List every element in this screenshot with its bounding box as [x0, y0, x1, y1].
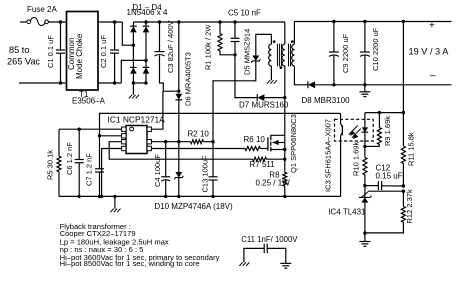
ground: controller section — [113, 195, 116, 198]
svg-text:D6 MRA4005T3: D6 MRA4005T3 — [184, 52, 193, 106]
svg-text:R2 10: R2 10 — [188, 130, 210, 139]
resistor R10 1.69k — [364, 146, 366, 157]
wire: pin5 driver — [151, 148, 245, 150]
capacitor C12 0.15 uF — [365, 185, 379, 187]
resistor R2 10 — [191, 140, 204, 144]
capacitor C10 2200 uF — [363, 20, 366, 23]
transformer T2 aux winding W1 — [269, 44, 272, 66]
shunt regulator IC4 TL431 — [364, 186, 366, 198]
LED inside opto — [362, 127, 369, 132]
transformer T2 primary winding W2 — [284, 22, 286, 44]
capacitor C7 1.2 nF — [99, 136, 101, 169]
wire: ground bus — [59, 195, 341, 197]
svg-text:R9 1.69k: R9 1.69k — [383, 116, 392, 146]
svg-text:IC3 SFH615AA–X007: IC3 SFH615AA–X007 — [324, 119, 333, 192]
transformer T2 secondary winding W3 — [292, 44, 295, 66]
svg-text:0.15 uF: 0.15 uF — [376, 172, 403, 181]
wire: pin4 ground — [102, 149, 122, 197]
svg-text:C1 0.1 uF: C1 0.1 uF — [46, 35, 55, 68]
common mode choke T1 E3506-A — [67, 12, 99, 91]
svg-text:0.25 / 1W: 0.25 / 1W — [256, 179, 291, 188]
wire: choke out top to bridge AC1 — [98, 21, 122, 23]
wire: feedback top rail — [365, 112, 404, 114]
wire: DC+ rail — [133, 21, 284, 23]
capacitor C9 2200 uF — [332, 20, 335, 23]
wire: bridge bottom rail — [133, 82, 146, 84]
svg-text:E3506–A: E3506–A — [72, 97, 106, 106]
node bridge AC1 mid-left — [132, 44, 135, 47]
zener D10 MZP4746A 18V — [178, 142, 180, 172]
svg-text:+: + — [429, 21, 435, 32]
svg-text:D5 MMSZ914: D5 MMSZ914 — [243, 29, 252, 75]
wire: TL431 ref — [360, 192, 368, 198]
optocoupler IC3 SFH615AA-X007 — [335, 119, 374, 141]
node phase dot W3 — [291, 40, 294, 43]
resistor R1 100k/2W snubber — [218, 20, 221, 23]
ground: bridge negative — [132, 83, 134, 95]
svg-text:C5 10 nF: C5 10 nF — [228, 9, 261, 18]
wire: secondary top to output+ rail — [294, 22, 451, 45]
capacitor C2 0.1 uF — [114, 22, 116, 50]
capacitor C5 10 nF snubber — [233, 20, 236, 23]
svg-text:–: – — [430, 71, 436, 82]
svg-text:Cooper CTX22–17179: Cooper CTX22–17179 — [60, 229, 136, 238]
diode D2 bridge upper-right — [145, 22, 147, 26]
svg-text:IC1 NCP1271A: IC1 NCP1271A — [108, 115, 166, 125]
svg-text:Hi–pot 8500Vac for 1 sec, wind: Hi–pot 8500Vac for 1 sec, winding to cor… — [60, 259, 200, 268]
resistor R9 1.69k — [378, 113, 380, 128]
node snubber clamp — [233, 53, 236, 56]
resistor R8 0.25/1W — [284, 159, 286, 172]
wire: clamp node down to D7 — [235, 55, 257, 98]
svg-text:19 V / 3 A: 19 V / 3 A — [409, 47, 450, 57]
svg-text:C3 82uF / 400V: C3 82uF / 400V — [166, 20, 175, 73]
IC1 NCP1271A controller — [126, 126, 147, 154]
transformer core primary — [276, 44, 278, 67]
svg-text:D10 MZP4746A (18V): D10 MZP4746A (18V) — [154, 202, 233, 211]
fuse F1 Fuse 2A — [27, 20, 31, 24]
diode D8 MBR3100 output rectifier — [308, 81, 315, 88]
svg-text:C9 2200 uF: C9 2200 uF — [341, 33, 350, 73]
svg-text:D7 MURS160: D7 MURS160 — [239, 101, 289, 110]
resistor R7 511 sense — [253, 157, 267, 161]
resistor R5 30.1k — [58, 129, 60, 156]
diode D6 MRA4005T3 — [177, 20, 180, 23]
svg-text:C4 100uF: C4 100uF — [153, 154, 162, 187]
svg-text:R7 511: R7 511 — [250, 160, 276, 169]
diode D4 bridge lower-right — [145, 60, 147, 67]
ground: TL431 anode — [364, 233, 366, 241]
svg-text:R11 15.8k: R11 15.8k — [407, 132, 416, 166]
wire: pin2 feedback — [100, 135, 122, 137]
wire: output sense divider drop — [402, 22, 404, 113]
diode D3 bridge lower-left — [132, 45, 134, 67]
svg-text:C10 2200 uF: C10 2200 uF — [371, 27, 380, 71]
resistor R11 15.8k — [402, 113, 404, 146]
wire: primary bottom to drain — [284, 66, 286, 135]
ground: aux winding — [270, 66, 272, 80]
svg-text:R6 10: R6 10 — [244, 135, 266, 144]
wire: AC neutral input — [19, 82, 66, 84]
node phase dot W2 — [280, 66, 283, 69]
node bridge AC2 mid-right — [144, 59, 147, 62]
capacitor C1 0.1 uF — [60, 22, 62, 50]
capacitor C4 100uF — [165, 142, 167, 177]
svg-text:R12 2.37k: R12 2.37k — [405, 189, 414, 223]
opto light arrows — [349, 125, 358, 135]
diode D1 bridge upper-left — [132, 22, 134, 26]
svg-text:R1 100k / 2W: R1 100k / 2W — [204, 24, 213, 70]
node drain clamp junction — [283, 96, 286, 99]
svg-text:265 Vac: 265 Vac — [7, 57, 40, 67]
wire: pin3 current sense line — [109, 142, 252, 160]
svg-text:C13 100uF: C13 100uF — [201, 155, 210, 193]
diode D5 MMSZ914 aux — [256, 34, 272, 55]
wire: AC line input left stub — [20, 21, 27, 23]
svg-text:C11 1nF/ 1000V: C11 1nF/ 1000V — [241, 235, 298, 244]
resistor R12 2.37k — [402, 191, 404, 206]
svg-text:C6 1.2 nF: C6 1.2 nF — [65, 142, 74, 175]
svg-text:IC4 TL431: IC4 TL431 — [328, 207, 366, 216]
opto phototransistor — [341, 125, 343, 135]
svg-text:85 to: 85 to — [9, 45, 29, 55]
svg-text:D8 MBR3100: D8 MBR3100 — [302, 96, 351, 105]
wire: pin8 HV startup — [151, 91, 163, 129]
node phase dot W1 — [273, 40, 276, 43]
svg-text:1N5406 x 4: 1N5406 x 4 — [127, 8, 168, 17]
svg-text:C7 1.2 nF: C7 1.2 nF — [85, 153, 94, 186]
svg-text:Fuse 2A: Fuse 2A — [27, 5, 57, 14]
transformer core secondary — [288, 44, 290, 67]
capacitor C6 1.2 nF — [78, 129, 80, 159]
svg-text:Q1 SPP06N80C3: Q1 SPP06N80C3 — [289, 114, 298, 173]
resistor R6 10 — [245, 147, 260, 151]
wire: fuse to choke — [48, 21, 66, 23]
wire: feedback line to opto collector — [100, 113, 341, 135]
wire: secondary bottom to D8 — [294, 66, 307, 85]
diode D7 MURS160 clamp — [257, 94, 264, 101]
node TL431 anode — [363, 231, 366, 234]
wire: choke out bottom to bridge AC2 — [98, 82, 121, 84]
capacitor C13 100uF — [212, 142, 214, 177]
ground: output negative — [364, 85, 366, 92]
svg-text:Mode Choke: Mode Choke — [75, 33, 84, 79]
svg-text:C2 0.1 uF: C2 0.1 uF — [99, 35, 108, 68]
wire: VCC rail — [151, 141, 190, 143]
node junction C1 top — [59, 20, 62, 23]
svg-text:R5 30.1k: R5 30.1k — [46, 150, 55, 180]
transistor Q1 SPP06N80C3 — [267, 137, 269, 150]
capacitor C3 82uF/400V bulk — [158, 20, 161, 23]
wire: pin1 to R5 C6 — [59, 128, 122, 130]
svg-text:R10 1.69k: R10 1.69k — [352, 142, 361, 176]
